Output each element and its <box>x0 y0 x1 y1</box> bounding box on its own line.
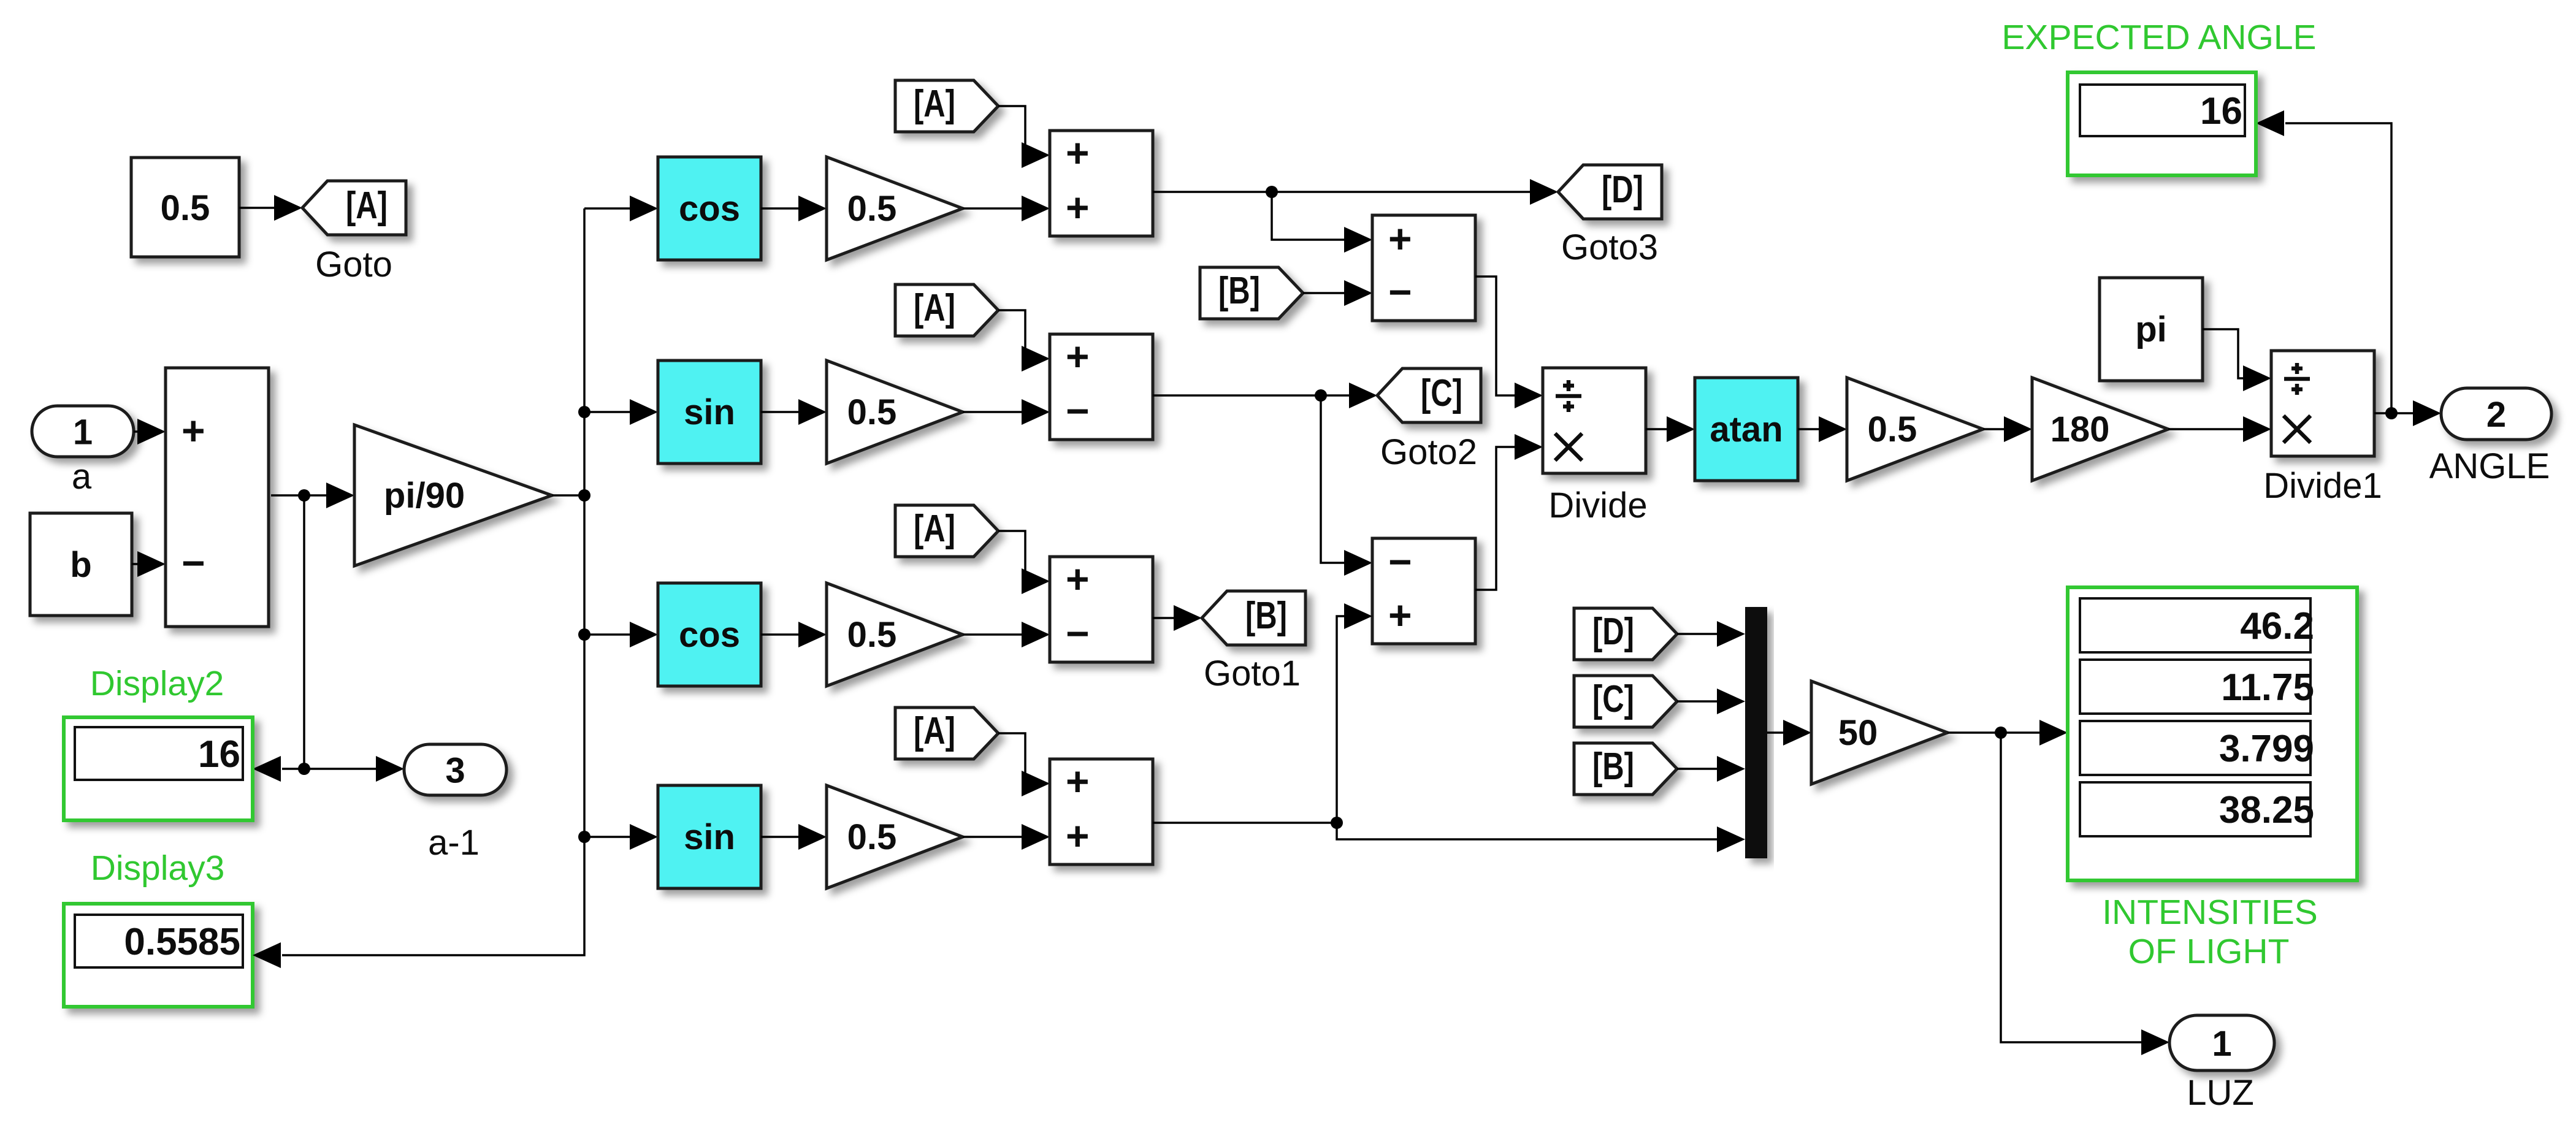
wire gain 50 to display <box>1947 731 2042 734</box>
divide block Divide <box>1543 368 1646 473</box>
from tag [C] (to mux) <box>1574 676 1677 727</box>
svg-text:[D]: [D] <box>1592 611 1634 653</box>
wire branch to displays <box>303 495 305 769</box>
wire Sum to Gain pi/90 <box>271 494 329 497</box>
wire pi to Divide1 <box>2203 329 2245 378</box>
divide block Divide1 <box>2271 351 2374 456</box>
wire from-B to sum D-B <box>1303 292 1347 294</box>
outport 1 (LUZ) <box>2169 1015 2274 1070</box>
wire to outport a-1 <box>304 768 378 770</box>
from tag [A] row2 <box>895 284 998 336</box>
gain 0.5 row1 <box>827 157 963 260</box>
wire b to Sum <box>132 563 140 565</box>
wire from-C to mux <box>1677 700 1719 703</box>
svg-text:sin: sin <box>684 817 735 857</box>
svg-text:Goto2: Goto2 <box>1380 432 1477 472</box>
svg-text:cos: cos <box>679 189 740 229</box>
bus wire to trig rows and Display3 <box>282 208 584 955</box>
sum block row3 <box>1050 557 1153 662</box>
inport 1 (a) <box>32 406 134 457</box>
constant block b <box>30 513 132 616</box>
wire from-B to mux <box>1677 768 1719 770</box>
wire gain3 to sum <box>963 633 1024 636</box>
constant block 0.5 <box>131 158 239 257</box>
wire branch to sum C (minus in) <box>1321 395 1347 563</box>
outport 2 (ANGLE) <box>2441 388 2551 440</box>
svg-text:16: 16 <box>2200 90 2242 132</box>
svg-text:[B]: [B] <box>1245 595 1287 637</box>
wire sum1 out to Goto3 <box>1153 191 1532 193</box>
atan block <box>1695 378 1798 481</box>
trig block sin row2 <box>658 360 761 464</box>
svg-text:−: − <box>1066 611 1090 656</box>
wire gain 180 to Divide1 <box>2168 428 2245 430</box>
svg-text:0.5: 0.5 <box>847 189 897 229</box>
svg-text:[C]: [C] <box>1592 678 1634 720</box>
svg-text:cos: cos <box>679 615 740 655</box>
sum block D-B (top middle) <box>1372 215 1475 321</box>
gain 0.5 (after atan) <box>1847 378 1983 481</box>
outport 3 (a-1) <box>404 744 506 795</box>
svg-text:38.25: 38.25 <box>2219 789 2314 831</box>
svg-text:+: + <box>182 408 205 453</box>
sum block C (bottom middle) <box>1372 538 1475 644</box>
svg-text:1: 1 <box>2212 1024 2231 1064</box>
svg-text:2: 2 <box>2486 395 2506 435</box>
svg-text:[D]: [D] <box>1602 169 1643 211</box>
wire gain1 to sum <box>963 207 1024 210</box>
sum block row4 <box>1050 759 1153 864</box>
svg-text:+: + <box>1066 556 1090 601</box>
wire bus to cos row1 <box>584 207 632 210</box>
goto tag [B] (Goto1) <box>1202 591 1305 645</box>
wire sin2 to gain <box>761 411 801 413</box>
svg-text:pi: pi <box>2135 310 2167 349</box>
wire gain 50 to LUZ <box>2001 733 2144 1042</box>
svg-text:[C]: [C] <box>1421 372 1462 414</box>
svg-text:0.5: 0.5 <box>161 188 210 228</box>
wire cos1 to gain <box>761 207 801 210</box>
wire sum4 out to sum C and mux <box>1153 616 1719 839</box>
from tag [D] (to mux) <box>1574 608 1677 660</box>
svg-text:Display2: Display2 <box>90 664 224 703</box>
wire inport-1 to Sum <box>134 430 140 433</box>
svg-text:+: + <box>1066 185 1090 230</box>
svg-text:EXPECTED ANGLE: EXPECTED ANGLE <box>2001 18 2316 57</box>
svg-text:+: + <box>1066 130 1090 175</box>
wire branch to sum D-B <box>1272 192 1347 240</box>
wire from-tag to sum row2 <box>998 310 1025 359</box>
wire Gain pi/90 to bus <box>552 494 584 497</box>
display Display3 <box>64 904 253 1007</box>
svg-text:−: − <box>1388 539 1412 584</box>
display EXPECTED ANGLE <box>2068 72 2256 175</box>
wire sin4 to gain <box>761 836 801 838</box>
svg-text:16: 16 <box>198 733 240 776</box>
gain 180 <box>2032 378 2168 481</box>
wire gain4 to sum <box>963 836 1024 838</box>
svg-text:0.5: 0.5 <box>847 392 897 432</box>
svg-text:46.2: 46.2 <box>2240 605 2314 647</box>
svg-text:[A]: [A] <box>346 185 388 227</box>
svg-text:0.5585: 0.5585 <box>124 921 240 963</box>
mux block <box>1745 607 1767 858</box>
wire bus to sin row2 <box>584 411 632 413</box>
svg-text:−: − <box>182 540 205 586</box>
from tag [A] row4 <box>895 708 998 759</box>
wire Divide1 out to ANGLE <box>2374 412 2415 414</box>
svg-text:50: 50 <box>1838 713 1878 753</box>
svg-text:3: 3 <box>445 751 465 791</box>
svg-text:+: + <box>1066 758 1090 804</box>
wire gain2 to sum <box>963 411 1024 413</box>
from tag [A] row1 <box>895 80 998 132</box>
display Display2 <box>64 717 253 820</box>
trig block sin row4 <box>658 785 761 888</box>
svg-text:[A]: [A] <box>914 83 955 125</box>
constant block pi <box>2100 278 2203 381</box>
wire sum C to Divide times-in <box>1475 447 1517 590</box>
goto tag [A] (Goto) <box>302 181 406 235</box>
wire gain 0.5 to gain 180 <box>1983 428 2006 430</box>
svg-text:[A]: [A] <box>914 287 955 329</box>
svg-text:Display3: Display3 <box>91 849 225 888</box>
svg-text:0.5: 0.5 <box>1868 410 1917 449</box>
svg-text:b: b <box>70 545 91 585</box>
svg-text:Goto3: Goto3 <box>1561 227 1658 267</box>
svg-text:+: + <box>1066 813 1090 858</box>
wire from-tag to sum row1 <box>998 106 1025 155</box>
svg-text:3.799: 3.799 <box>2219 728 2314 770</box>
gain 0.5 row3 <box>827 583 963 686</box>
wire sum2 out to Goto2 <box>1153 394 1351 397</box>
sum block row1 <box>1050 131 1153 236</box>
svg-text:11.75: 11.75 <box>2221 666 2314 709</box>
svg-text:Divide: Divide <box>1548 486 1647 525</box>
goto tag [D] (Goto3) <box>1558 165 1662 219</box>
wire Divide1 out to expected-angle display <box>2285 123 2391 413</box>
wire cos3 to gain <box>761 633 801 636</box>
svg-text:atan: atan <box>1710 410 1783 449</box>
svg-text:−: − <box>1388 269 1412 315</box>
gain 0.5 row2 <box>827 360 963 464</box>
svg-text:[A]: [A] <box>914 508 955 550</box>
goto tag [C] (Goto2) <box>1377 368 1481 422</box>
from tag [B] top <box>1200 267 1303 319</box>
wire from-tag to sum row4 <box>998 733 1025 784</box>
svg-text:[A]: [A] <box>914 710 955 752</box>
gain 0.5 row4 <box>827 785 963 888</box>
wire bus to cos row3 <box>584 633 632 636</box>
svg-text:OF LIGHT: OF LIGHT <box>2128 932 2290 971</box>
svg-text:+: + <box>1066 334 1090 379</box>
svg-text:180: 180 <box>2050 410 2110 449</box>
wire bus to sin row4 <box>584 836 632 838</box>
display INTENSITIES OF LIGHT <box>2068 587 2357 880</box>
svg-text:LUZ: LUZ <box>2187 1073 2254 1113</box>
gain pi/90 <box>354 425 552 566</box>
wire to Display2 <box>282 768 304 770</box>
svg-text:+: + <box>1388 592 1412 638</box>
svg-text:Goto: Goto <box>315 245 392 284</box>
svg-text:Goto1: Goto1 <box>1204 654 1301 693</box>
wire constant-0.5 to Goto <box>239 207 277 209</box>
svg-text:INTENSITIES: INTENSITIES <box>2102 893 2318 932</box>
svg-text:0.5: 0.5 <box>847 615 897 655</box>
sum block a-b <box>166 368 269 627</box>
trig block cos row1 <box>658 157 761 260</box>
wire atan to gain 0.5 <box>1798 428 1821 430</box>
svg-text:a: a <box>72 457 92 497</box>
svg-text:1: 1 <box>73 413 93 452</box>
sum block row2 <box>1050 334 1153 440</box>
svg-text:a-1: a-1 <box>428 823 480 863</box>
svg-text:0.5: 0.5 <box>847 817 897 857</box>
svg-text:Divide1: Divide1 <box>2263 466 2382 506</box>
wire mux to gain 50 <box>1767 731 1786 734</box>
from tag [B] (to mux) <box>1574 743 1677 795</box>
svg-text:[B]: [B] <box>1592 746 1634 788</box>
svg-text:pi/90: pi/90 <box>384 476 465 516</box>
wire Divide to atan <box>1646 428 1669 430</box>
svg-text:ANGLE: ANGLE <box>2429 446 2550 486</box>
wire from-tag to sum row3 <box>998 531 1025 581</box>
trig block cos row3 <box>658 583 761 686</box>
svg-text:−: − <box>1066 388 1090 433</box>
wire from-D to mux <box>1677 633 1719 635</box>
wire sum D-B to Divide <box>1475 277 1517 395</box>
wire sum3 out to Goto1 <box>1153 617 1176 619</box>
svg-text:+: + <box>1388 216 1412 261</box>
from tag [A] row3 <box>895 505 998 557</box>
svg-text:[B]: [B] <box>1218 270 1260 312</box>
gain 50 <box>1811 681 1947 784</box>
svg-text:sin: sin <box>684 392 735 432</box>
